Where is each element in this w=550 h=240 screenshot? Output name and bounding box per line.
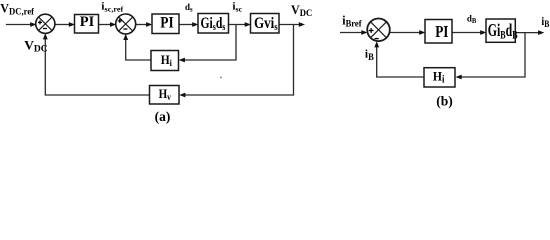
svg-text:(a): (a)	[155, 109, 171, 124]
svg-text:PI: PI	[435, 24, 448, 42]
svg-text:PI: PI	[80, 14, 95, 30]
svg-text:PI: PI	[160, 15, 174, 32]
svg-text:(b): (b)	[436, 94, 453, 109]
